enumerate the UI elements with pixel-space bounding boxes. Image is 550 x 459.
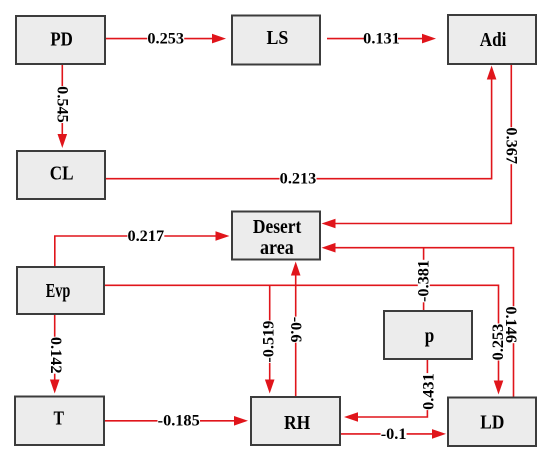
svg-text:-0.6: -0.6	[287, 317, 306, 343]
svg-text:p: p	[425, 326, 435, 347]
label 0.367 (Adi-Desert, rotated CW)	[503, 127, 522, 164]
box T	[15, 397, 104, 446]
svg-text:0.142: 0.142	[47, 337, 66, 374]
label 0.131 (LS-Adi)	[363, 29, 400, 48]
wire PD-LS (0.253)	[105, 34, 226, 44]
svg-text:0.146: 0.146	[502, 306, 521, 343]
svg-text:0.431: 0.431	[418, 373, 437, 410]
svg-text:Adi: Adi	[480, 30, 507, 51]
box CL	[17, 151, 105, 199]
svg-text:RH: RH	[284, 413, 310, 434]
label 0.146 (LD-Desert, rotated CW)	[502, 306, 521, 343]
label -0.185 (T-RH)	[158, 411, 201, 430]
wire RH-LD (-0.1)	[340, 429, 446, 439]
label -0.519 (Evp-RH, rotated CCW)	[259, 320, 278, 363]
svg-text:0.253: 0.253	[147, 29, 184, 48]
svg-text:LS: LS	[267, 28, 289, 49]
box p	[384, 311, 472, 359]
svg-text:0.213: 0.213	[280, 169, 317, 188]
label 0.217 (Evp-Desert)	[127, 226, 164, 245]
label -0.6 (RH-Desert, rotated CW)	[287, 317, 306, 343]
wire Adi-Desert (0.367)	[322, 64, 512, 228]
wire p-RH (0.431)	[344, 359, 427, 422]
svg-text:Evp: Evp	[46, 281, 71, 302]
wire Evp-Desert (0.217)	[55, 231, 230, 267]
label 0.545 (PD-CL, rotated CW)	[54, 86, 73, 123]
svg-text:0.545: 0.545	[54, 86, 73, 123]
label 0.142 (Evp-T, rotated CW)	[47, 337, 66, 374]
svg-text:T: T	[54, 409, 65, 430]
wire LS-Adi (0.131)	[327, 34, 436, 44]
wire RH-Desert (-0.6)	[291, 262, 301, 398]
svg-text:CL: CL	[50, 164, 74, 185]
label -0.381 (p-Desert, rotated CCW)	[414, 260, 433, 303]
box Evp	[17, 267, 104, 314]
svg-text:PD: PD	[50, 30, 73, 51]
box LS	[232, 16, 320, 65]
svg-text:LD: LD	[480, 412, 504, 433]
box RH	[251, 397, 340, 445]
wire Evp-LD (0.253)	[104, 285, 503, 394]
label 0.431 (p-RH, rotated CCW)	[418, 373, 437, 410]
wire p-Desert (-0.381)	[423, 248, 425, 311]
label 0.253 (PD-LS)	[147, 29, 184, 48]
box Adi	[448, 15, 536, 64]
box PD	[16, 16, 105, 64]
wire Evp-T (0.142)	[50, 314, 60, 394]
svg-text:-0.381: -0.381	[414, 260, 433, 302]
label -0.1 (RH-LD)	[381, 424, 407, 443]
svg-text:-0.519: -0.519	[259, 321, 278, 363]
svg-text:0.367: 0.367	[503, 127, 522, 164]
box LD	[448, 398, 536, 447]
svg-text:-0.1: -0.1	[381, 424, 407, 443]
box Desert area	[232, 212, 320, 260]
svg-text:0.217: 0.217	[127, 226, 164, 245]
wire Evp-RH (-0.519)	[265, 285, 275, 393]
wire T-RH (-0.185)	[104, 416, 248, 426]
svg-text:area: area	[260, 238, 294, 259]
svg-text:-0.185: -0.185	[158, 411, 200, 430]
svg-text:Desert: Desert	[253, 217, 302, 238]
label 0.213 (CL-Adi)	[280, 169, 317, 188]
wire LD-Desert (0.146)	[322, 243, 514, 398]
wire PD-CL (0.545)	[58, 64, 68, 148]
svg-text:0.131: 0.131	[363, 29, 400, 48]
wire CL-Adi (0.213)	[105, 66, 496, 179]
label 0.253 (Evp-LD, rotated CCW)	[488, 324, 507, 361]
